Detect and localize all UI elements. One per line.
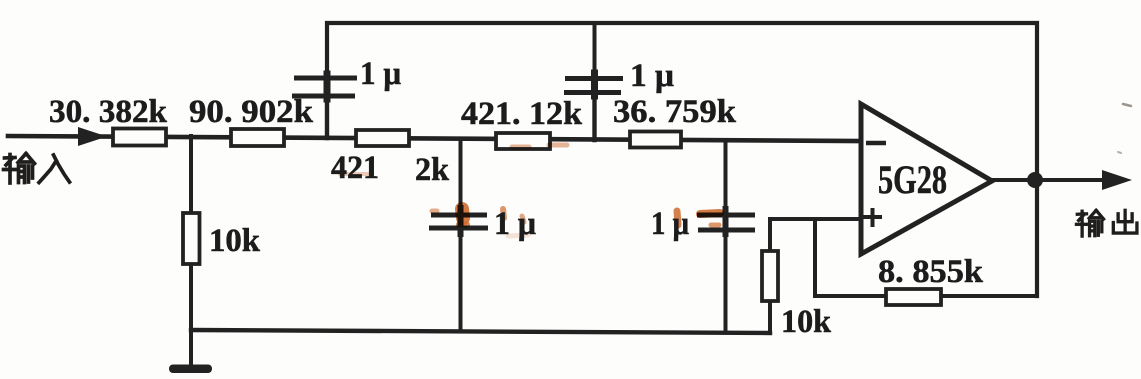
wire: C4 lead through plates — [724, 140, 728, 209]
resistor R7 10k vertical right — [762, 251, 778, 301]
capacitor C4 1u middle-right — [697, 215, 755, 230]
resistor R6 10k vertical left — [183, 213, 200, 264]
wire: output to arrow — [992, 178, 1110, 182]
resistor R1 30.382k — [113, 129, 166, 146]
wire: top feedback rail — [327, 23, 1037, 296]
svg-text:10k: 10k — [781, 304, 832, 340]
svg-text:1 μ: 1 μ — [651, 206, 689, 242]
svg-text:1 μ: 1 μ — [494, 206, 536, 242]
svg-text:36. 759k: 36. 759k — [613, 94, 737, 130]
svg-text:421. 12k: 421. 12k — [461, 96, 583, 132]
wire: main input/signal rail — [8, 136, 861, 141]
wire: C3 lead through plates — [459, 139, 463, 208]
wire: feedback bottom segment to 8.855k — [815, 294, 1037, 298]
svg-text:1 μ: 1 μ — [360, 56, 401, 92]
wire: junction down to feedback — [813, 219, 817, 296]
svg-text:8. 855k: 8. 855k — [878, 254, 984, 290]
svg-text:2k: 2k — [415, 152, 450, 188]
resistor R4 421.12k — [496, 133, 550, 149]
svg-text:1 μ: 1 μ — [630, 58, 674, 94]
svg-text:421: 421 — [331, 150, 379, 186]
op-amp U1 5G28 — [861, 104, 992, 254]
ground — [169, 365, 212, 374]
node OUT junction dot — [1027, 172, 1043, 188]
svg-text:90. 902k: 90. 902k — [189, 94, 314, 130]
resistor R5 36.759k — [630, 132, 681, 148]
label output (shu-chu) — [1076, 210, 1137, 236]
svg-text:30. 382k: 30. 382k — [49, 94, 168, 130]
capacitor C1 1u top-left — [292, 78, 357, 96]
label input (shu-ru) — [4, 154, 70, 184]
capacitor C2 1u top-right — [564, 79, 623, 93]
resistor R2 90.902k — [231, 129, 284, 146]
output arrow — [1102, 170, 1132, 190]
orange highlighter marks — [340, 145, 720, 236]
svg-text:5G28: 5G28 — [878, 157, 947, 202]
svg-text:10k: 10k — [209, 223, 261, 259]
wire: node A vertical to ground — [189, 136, 193, 366]
wire: bottom ground rail — [191, 330, 770, 333]
input arrow — [78, 127, 107, 146]
capacitor C3 1u middle-left — [429, 215, 488, 228]
scan artifact dash — [1123, 104, 1131, 106]
wire: op-amp plus input to 10k — [770, 219, 860, 332]
resistor R8 8.855k feedback — [886, 289, 941, 305]
resistor R3 2k — [356, 130, 409, 146]
wire: C2 lead through plates — [593, 23, 597, 73]
wire: C1 lead through plates — [324, 74, 331, 99]
